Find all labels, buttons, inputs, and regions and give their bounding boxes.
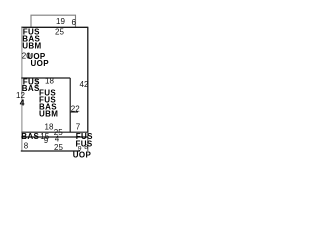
label FUS mid strike (23, 77, 40, 86)
label BAS bottom strike (21, 132, 39, 141)
label 8 left bottom dim (24, 142, 29, 151)
label 18 mid dim (45, 77, 54, 86)
wall notch tick (70, 111, 78, 113)
label FUS porch strike (76, 132, 93, 141)
label 15 bottom dim (40, 132, 49, 141)
svg-text:25: 25 (55, 27, 64, 36)
svg-text:UBM: UBM (22, 42, 41, 51)
label 9 small at line end (78, 145, 82, 152)
wall mid horizontal (21, 77, 70, 79)
svg-text:4: 4 (20, 98, 25, 108)
label 4 bottom dim (55, 135, 60, 144)
label 25 messy dim (54, 128, 63, 137)
svg-text:22: 22 (71, 105, 80, 114)
wall main top (21, 26, 88, 28)
label BAS mid (22, 84, 40, 93)
svg-text:7: 7 (76, 122, 81, 131)
wall BAS strike line (21, 136, 88, 138)
label 8 small right (84, 144, 88, 151)
wall main left (grey) (21, 27, 23, 151)
svg-text:UOP: UOP (31, 59, 50, 68)
label FUS porch2 (76, 139, 93, 148)
porch box top (grey outline) (31, 15, 76, 27)
label UOP bottom porch (73, 150, 92, 159)
wall small box left vertical (grey) (36, 78, 38, 89)
label 25 main width (55, 27, 64, 36)
wall mid vertical (69, 78, 71, 132)
label 12 left dim (16, 91, 25, 100)
label FUS upper (23, 27, 40, 36)
label 22 mid wall dim (71, 105, 80, 114)
wall main right (87, 27, 89, 132)
label 20 wall dim (22, 52, 31, 61)
svg-text:6: 6 (72, 18, 77, 27)
label 6 porch height (72, 18, 77, 27)
svg-text:19: 19 (56, 17, 65, 26)
wall bottom of 7-box (22, 131, 89, 133)
svg-text:18: 18 (45, 122, 54, 131)
label 4 blob on wall (20, 98, 25, 108)
label BAS stack3 (39, 102, 57, 111)
label UBM upper (22, 42, 41, 51)
label UBM stack4 (39, 110, 58, 119)
label BAS upper (22, 34, 40, 43)
label 19 porch width (56, 17, 65, 26)
svg-text:18: 18 (45, 77, 54, 86)
svg-text:8: 8 (24, 142, 29, 151)
svg-text:BAS: BAS (21, 132, 39, 141)
wall bottom line (21, 150, 80, 152)
label 7 box dim (76, 122, 81, 131)
label UOP row2 (31, 59, 50, 68)
wall right lower (grey) (87, 132, 89, 151)
svg-text:9: 9 (44, 136, 49, 145)
label FUS stack1 (39, 88, 56, 97)
svg-text:42: 42 (80, 80, 89, 89)
label 42 right wall dim (80, 80, 89, 89)
label 25 bottom width dim (54, 143, 63, 152)
label UOP row1 (27, 52, 46, 61)
svg-text:UBM: UBM (39, 110, 58, 119)
svg-text:UOP: UOP (73, 150, 92, 159)
svg-text:25: 25 (54, 143, 63, 152)
label 18 lower dim (45, 122, 54, 131)
label 9 bottom dim (44, 136, 49, 145)
label FUS stack2 (39, 95, 56, 104)
